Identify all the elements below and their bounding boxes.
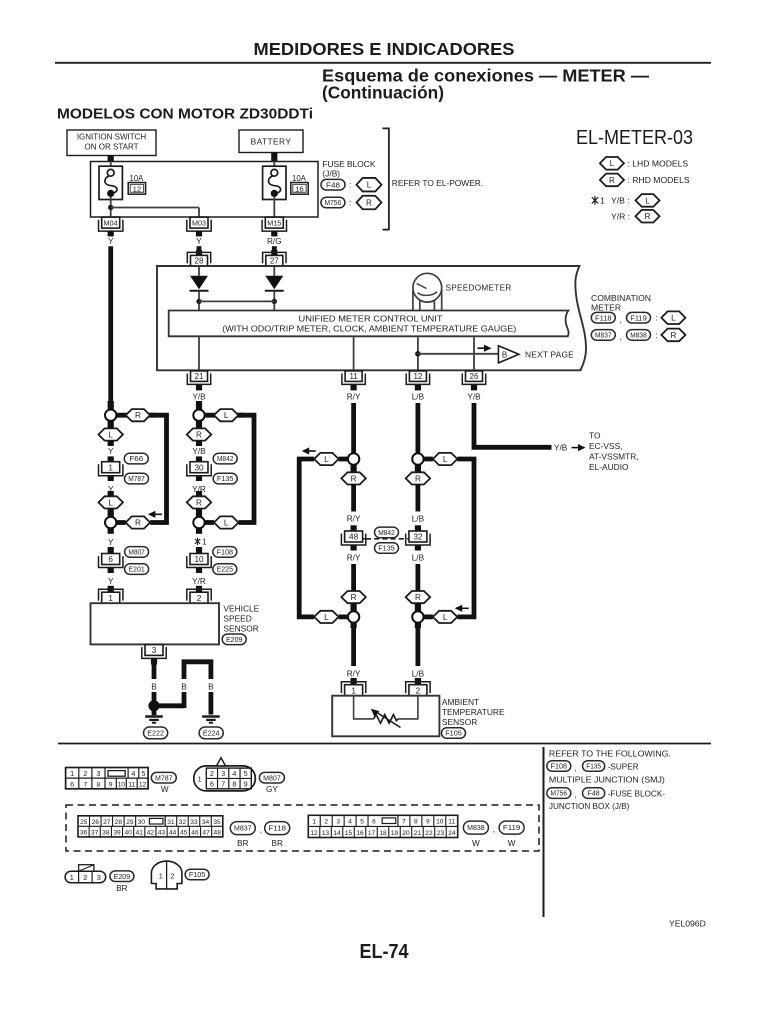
subtitle MODELOS CON MOTOR ZD30DDTi — [57, 107, 313, 123]
svg-text:R: R — [196, 430, 202, 439]
wire branch to M03 — [111, 208, 199, 218]
oval F48 refer — [583, 788, 605, 799]
svg-text:L/B: L/B — [412, 554, 425, 563]
oval M756 refer — [547, 788, 571, 799]
svg-text:,: , — [493, 825, 495, 834]
col3 stub hexagon to bottom node — [351, 603, 357, 611]
wire diode 27 to node — [272, 291, 277, 311]
svg-text:B: B — [502, 350, 507, 359]
svg-text:VEHICLE: VEHICLE — [223, 604, 259, 614]
wire Y/B 26 to EC-VSS — [474, 403, 552, 447]
legend hexagon L meter — [661, 311, 685, 324]
smj grid M838/F119 — [308, 815, 457, 837]
svg-text:E209: E209 — [114, 872, 131, 881]
svg-text:M04: M04 — [104, 221, 118, 228]
svg-text:(J/B): (J/B) — [322, 169, 340, 179]
svg-text:R/Y: R/Y — [347, 554, 361, 563]
stub below M04 — [108, 231, 114, 236]
col1 bottom node circle — [105, 517, 116, 528]
svg-text:6: 6 — [372, 818, 376, 825]
svg-text:R: R — [351, 474, 357, 483]
svg-text:FUSE BLOCK: FUSE BLOCK — [322, 159, 375, 169]
svg-text:: LHD MODELS: : LHD MODELS — [628, 159, 689, 169]
wire into fuse 12 — [110, 162, 112, 167]
svg-text:40: 40 — [124, 829, 132, 836]
col2 stub above lower hexagon — [196, 491, 202, 496]
svg-text:44: 44 — [169, 829, 177, 836]
label W under F119 — [508, 839, 516, 848]
svg-text:3: 3 — [96, 769, 100, 778]
bracket refer el-power — [383, 128, 389, 229]
wire bar to connector 11 — [353, 336, 355, 371]
svg-text:8: 8 — [232, 780, 236, 789]
svg-text:43: 43 — [158, 829, 166, 836]
svg-text:JUNCTION BOX (J/B): JUNCTION BOX (J/B) — [549, 802, 630, 811]
oval M837 smj — [230, 822, 255, 835]
col4 hexagon L bottom — [433, 611, 458, 623]
ambient pin 2 connector — [406, 682, 430, 696]
svg-text:1: 1 — [600, 196, 605, 206]
svg-text:8: 8 — [414, 818, 418, 825]
svg-text:12: 12 — [139, 782, 147, 789]
wire bar to connector 21 — [198, 336, 200, 371]
label Y/B at arrow — [554, 444, 568, 453]
smj dashed box — [66, 805, 539, 851]
col4 hexagon L top — [433, 453, 458, 465]
legend hexagon L Y/B — [636, 194, 660, 207]
col3 bottom node circle — [348, 611, 359, 622]
svg-text:Y: Y — [196, 237, 202, 246]
svg-text:EC-VSS,: EC-VSS, — [589, 441, 623, 451]
legend hexagon L F48 — [357, 178, 382, 192]
connector pinout E209 — [65, 865, 106, 883]
svg-text:2: 2 — [83, 873, 87, 882]
stub below connector 26 — [471, 385, 477, 390]
oval M842 col2 — [213, 453, 237, 464]
col2 connector 30 inline — [187, 462, 211, 476]
oval E201 — [125, 564, 149, 575]
label TO EC-VSS AT-VSSMTR EL-AUDIO — [589, 430, 639, 472]
label Y below M04 — [108, 237, 114, 246]
fuse number 12 box — [128, 183, 145, 195]
col1 stub below hexagon — [108, 441, 114, 446]
svg-text:REFER TO THE FOLLOWING.: REFER TO THE FOLLOWING. — [549, 749, 671, 758]
svg-text:B: B — [151, 682, 157, 691]
label Y/B below connector 21 — [192, 393, 206, 402]
svg-text:R: R — [415, 474, 421, 483]
col1 wire node to hexagon — [116, 413, 156, 418]
wire B pin3 down — [152, 665, 157, 680]
svg-text::: : — [349, 198, 351, 208]
oval F119 — [627, 312, 651, 323]
svg-text:R/G: R/G — [267, 237, 282, 246]
svg-text:SENSOR: SENSOR — [442, 717, 477, 727]
svg-text:M756: M756 — [551, 789, 568, 798]
label EL-74 — [360, 941, 410, 963]
svg-text:3: 3 — [97, 873, 101, 882]
legend hexagon R Y/R — [636, 210, 660, 223]
stub below connector 11 — [351, 385, 357, 390]
oval M807 col1 — [125, 547, 149, 558]
wire 28 to diode — [198, 266, 200, 276]
col2 bottom node circle — [193, 517, 204, 528]
col4 wire node to hexagon — [424, 457, 433, 462]
label EL-METER-03 — [576, 126, 693, 149]
label REFER TO EL-POWER — [392, 178, 483, 188]
wire ignition to fuse block — [108, 156, 114, 162]
svg-text:R: R — [135, 411, 141, 420]
wire branch down to ground E224 — [208, 692, 213, 715]
col1 stub below mid connector — [108, 476, 114, 481]
arrow toward next page — [478, 345, 492, 352]
col3 stub above sensor pin — [351, 678, 357, 685]
smj dashed link — [363, 538, 410, 540]
svg-text:2: 2 — [416, 686, 421, 695]
wire joining diode nodes — [199, 300, 274, 302]
svg-text:M15: M15 — [267, 221, 281, 228]
svg-text:BR: BR — [272, 839, 283, 848]
svg-text::: : — [656, 313, 658, 323]
thermistor arrow — [371, 709, 401, 728]
stub above connector 28 — [196, 250, 202, 255]
oval F105 sensor — [442, 728, 466, 739]
smj grid M837/F118 — [78, 816, 223, 837]
svg-text:M756: M756 — [325, 198, 342, 207]
svg-text:M787: M787 — [155, 773, 173, 782]
label YEL096D — [669, 919, 706, 929]
svg-text:15: 15 — [345, 830, 353, 837]
svg-text::: : — [656, 330, 658, 340]
label FUSE BLOCK (J/B) — [322, 159, 375, 179]
stub below connector 12 — [415, 385, 421, 390]
svg-text:L: L — [610, 159, 615, 168]
svg-text:1: 1 — [198, 774, 202, 783]
svg-text:F135: F135 — [217, 474, 234, 483]
node B branch — [415, 351, 498, 357]
label COMBINATION METER — [591, 293, 651, 313]
stub below pin 3 — [151, 658, 157, 664]
col4 stub hexagon to bottom node — [415, 603, 421, 611]
col3 hexagon R lower — [341, 591, 366, 603]
wire into fuse 16 — [273, 162, 275, 167]
col2 stub below mid connector — [196, 476, 202, 481]
svg-text:,: , — [575, 791, 577, 800]
col1 label Y above F66 — [108, 447, 114, 456]
svg-text:7: 7 — [83, 782, 87, 789]
connector M15 — [262, 217, 286, 231]
svg-text:45: 45 — [180, 829, 188, 836]
colon after M756 — [349, 198, 351, 208]
oval E225 — [213, 564, 237, 575]
svg-text:24: 24 — [448, 830, 456, 837]
oval F105 pinout — [185, 869, 209, 880]
col1 wire bottom node to hexagon — [116, 520, 125, 525]
wire branch up and over — [184, 662, 211, 679]
svg-text:AT-VSSMTR,: AT-VSSMTR, — [589, 451, 639, 461]
svg-text:M837: M837 — [234, 824, 252, 833]
oval M807 pinout — [259, 772, 284, 783]
label MULTIPLE JUNCTION SMJ — [549, 775, 665, 784]
svg-text:F66: F66 — [129, 454, 143, 463]
svg-text:BR: BR — [116, 884, 127, 893]
svg-text:L: L — [443, 613, 448, 622]
svg-text:17: 17 — [368, 830, 376, 837]
svg-text:M837: M837 — [595, 331, 612, 340]
col1 top node circle — [105, 410, 116, 421]
wire splice to branch — [158, 692, 184, 708]
label GY under M807 — [266, 785, 278, 794]
svg-text:Y/B :: Y/B : — [611, 196, 630, 206]
col2 label Y/R above VSS — [192, 577, 206, 586]
col1 hexagon R bottom — [126, 516, 150, 528]
stub below M15 — [271, 231, 277, 236]
col1 stub above top node — [108, 401, 114, 410]
legend hexagon R RHD — [600, 174, 624, 187]
oval F135 smj — [375, 543, 399, 554]
col3 hexagon L top — [314, 453, 339, 465]
oval F118 smj — [265, 822, 290, 835]
vss pin 1 connector — [99, 589, 123, 603]
vss pin 3 connector — [142, 644, 166, 658]
col2 connector 10 inline — [187, 554, 211, 568]
svg-text:11: 11 — [128, 782, 135, 789]
col1 hexagon L — [98, 428, 123, 440]
battery box — [239, 130, 303, 153]
subtitle Esquema de conexiones — [322, 66, 650, 86]
svg-text:MODELOS CON MOTOR ZD30DDTi: MODELOS CON MOTOR ZD30DDTi — [57, 107, 313, 123]
svg-text:B: B — [208, 682, 214, 691]
svg-text:31: 31 — [167, 819, 175, 826]
thermistor zigzag — [374, 715, 399, 724]
svg-text:9: 9 — [426, 818, 430, 825]
col4 wire down to top node — [415, 403, 420, 453]
col2 wire bottom node to hexagon — [205, 520, 214, 525]
oval F135 refer — [583, 761, 605, 772]
svg-text:,: , — [260, 826, 262, 835]
svg-text:2: 2 — [197, 594, 202, 603]
node below fuse 12 — [108, 197, 113, 217]
stub above connector 27 — [271, 250, 277, 255]
refer column divider — [543, 747, 545, 917]
col1 connector 1 inline — [99, 462, 123, 476]
wire fuse 16 to M15 — [273, 197, 275, 217]
svg-text:12: 12 — [413, 372, 422, 381]
svg-text:32: 32 — [413, 533, 423, 542]
fuse 16 10A — [263, 166, 286, 199]
svg-text:F118: F118 — [595, 313, 612, 322]
col3 wire bottom node to hexagon — [339, 615, 348, 620]
svg-text:L: L — [108, 498, 113, 507]
wire R/G M15 down to connector 27 — [272, 246, 277, 250]
wire diode 28 to node — [196, 291, 201, 311]
svg-text:12: 12 — [310, 830, 318, 837]
svg-text:48: 48 — [349, 533, 359, 542]
legend hexagon R M756 — [357, 196, 382, 210]
col4 arrow into bottom hexagon — [455, 605, 469, 612]
svg-text:F135: F135 — [586, 762, 601, 771]
svg-text:2: 2 — [324, 818, 328, 825]
svg-text:23: 23 — [437, 830, 445, 837]
svg-text:19: 19 — [391, 830, 399, 837]
svg-text:EL-AUDIO: EL-AUDIO — [589, 462, 629, 472]
col4 label L/B above 32 — [412, 515, 425, 524]
diode on wire 28 — [190, 276, 209, 291]
svg-text:REFER TO EL-POWER.: REFER TO EL-POWER. — [392, 178, 483, 188]
svg-text:COMBINATION: COMBINATION — [591, 293, 651, 303]
label SUPER — [608, 762, 639, 771]
col2 bypass wire right — [239, 415, 255, 522]
connector pinout F105 — [151, 861, 182, 889]
svg-text:E201: E201 — [128, 565, 145, 574]
legend hexagon R meter — [661, 329, 685, 342]
col4 bypass wire right — [457, 459, 474, 617]
label BR under E209 — [116, 884, 127, 893]
svg-text:36: 36 — [80, 829, 88, 836]
svg-text:Y/B: Y/B — [192, 393, 206, 402]
col3 label R/Y above sensor — [347, 669, 361, 678]
col2 stub above top node — [196, 401, 202, 410]
vehicle speed sensor box — [91, 603, 220, 644]
col4 stub below bottom node — [415, 623, 421, 628]
svg-text:35: 35 — [213, 819, 221, 826]
svg-text:SENSOR: SENSOR — [223, 624, 258, 634]
wire B to splice — [152, 692, 157, 701]
svg-text:28: 28 — [195, 257, 204, 266]
wire Y M04 down to node A — [108, 246, 113, 410]
svg-text:38: 38 — [102, 829, 110, 836]
col2 hexagon R — [187, 428, 212, 440]
svg-text:IGNITION SWITCH: IGNITION SWITCH — [77, 133, 147, 142]
col3 wire node to hexagon — [339, 457, 348, 462]
svg-text:1: 1 — [70, 873, 74, 882]
col1 bypass wire right — [150, 415, 166, 522]
col4 stub node to hexagon R — [415, 465, 421, 473]
svg-text:25: 25 — [80, 819, 88, 826]
col2 stub above VSS pin — [196, 586, 202, 593]
svg-text:33: 33 — [190, 819, 198, 826]
col2 stub below bottom node — [196, 528, 202, 534]
col1 stub hexagon to bottom node — [108, 509, 114, 517]
svg-text:SPEEDOMETER: SPEEDOMETER — [446, 284, 512, 293]
svg-text:UNIFIED METER CONTROL UNIT: UNIFIED METER CONTROL UNIT — [299, 314, 443, 323]
col3 connector 48 inline — [341, 531, 365, 545]
col3 bypass wire left — [299, 459, 314, 617]
oval F108 — [213, 547, 237, 558]
wire 27 to diode — [273, 266, 275, 276]
connector 27 — [263, 252, 286, 266]
svg-text:R/Y: R/Y — [347, 393, 361, 402]
connector 11 — [342, 371, 365, 385]
note Y/R — [611, 211, 630, 221]
svg-text:46: 46 — [191, 829, 199, 836]
arrow to EC-VSS — [572, 444, 586, 451]
svg-text:41: 41 — [136, 829, 144, 836]
col2 label *1 — [195, 538, 207, 547]
col1 stub node to hexagon below — [108, 421, 114, 428]
label R/G below M15 — [267, 237, 282, 246]
comma between F118 F119 — [620, 315, 622, 325]
svg-text:(Continuación): (Continuación) — [322, 82, 444, 102]
svg-text:W: W — [161, 785, 169, 794]
svg-text:L: L — [671, 314, 676, 323]
svg-text:1: 1 — [108, 463, 113, 472]
svg-text:L/B: L/B — [412, 393, 425, 402]
svg-text:29: 29 — [126, 819, 134, 826]
svg-text:W: W — [472, 839, 480, 848]
col4 connector 32 inline — [406, 531, 430, 545]
col3 wire down to top node — [351, 403, 356, 453]
label B left — [151, 682, 157, 691]
svg-text:4: 4 — [348, 818, 352, 825]
col1 stub above lower connector — [108, 547, 114, 554]
ground symbol E224 — [202, 717, 220, 723]
svg-text:Y/B: Y/B — [467, 393, 481, 402]
label BR under F118 — [272, 839, 283, 848]
col4 stub below mid connector — [415, 545, 421, 550]
svg-text:L: L — [324, 455, 329, 464]
svg-text:AMBIENT: AMBIENT — [442, 697, 479, 707]
col2 stub node to hexagon below — [196, 421, 202, 428]
ground symbol E222 — [145, 717, 163, 723]
svg-text:7: 7 — [402, 818, 406, 825]
fuse number 16 box — [291, 183, 308, 195]
oval F48 — [321, 179, 345, 190]
svg-text:1: 1 — [159, 871, 163, 880]
col1 hexagon R top — [126, 409, 150, 421]
svg-text:7: 7 — [221, 780, 225, 789]
title MEDIDORES E INDICADORES — [254, 39, 515, 59]
label B right — [208, 682, 214, 691]
svg-text:,: , — [575, 764, 577, 773]
svg-text:3: 3 — [152, 646, 157, 655]
svg-text:Y: Y — [108, 485, 114, 494]
page connector B triangle — [498, 346, 519, 363]
svg-text:1: 1 — [202, 538, 207, 547]
svg-text:M807: M807 — [128, 548, 145, 557]
svg-text:39: 39 — [113, 829, 121, 836]
label B middle — [181, 682, 187, 691]
svg-text:L/B: L/B — [412, 515, 425, 524]
col1 label Y below bottom node — [108, 538, 114, 547]
svg-text:M787: M787 — [128, 474, 145, 483]
svg-text:YEL096D: YEL096D — [669, 919, 706, 929]
svg-text:E222: E222 — [147, 729, 164, 738]
colon after F48 — [349, 180, 351, 190]
svg-text:21: 21 — [195, 372, 204, 381]
svg-text:F118: F118 — [268, 824, 286, 833]
oval F118 — [591, 312, 615, 323]
col1 hexagon L — [98, 496, 123, 508]
col1 label Y above VSS — [108, 577, 114, 586]
oval E224 — [199, 727, 223, 739]
col3 wire hexagon down — [351, 485, 356, 512]
splice node E222 — [148, 700, 159, 711]
col2 label Y/B above connector 30 — [192, 447, 206, 456]
svg-text:Y/R: Y/R — [192, 485, 206, 494]
svg-text:Y/B: Y/B — [554, 444, 568, 453]
svg-text:R: R — [670, 331, 676, 340]
svg-text:M838: M838 — [630, 331, 647, 340]
svg-text:M842: M842 — [378, 528, 395, 537]
svg-text:8: 8 — [97, 782, 101, 789]
col4 wire to lower hexagon R — [415, 564, 420, 591]
svg-text:R: R — [366, 198, 372, 207]
svg-text:M807: M807 — [263, 773, 281, 782]
svg-text:9: 9 — [244, 780, 248, 789]
svg-text:F48: F48 — [326, 180, 340, 189]
svg-text:L: L — [224, 411, 229, 420]
oval F66 — [124, 453, 148, 464]
